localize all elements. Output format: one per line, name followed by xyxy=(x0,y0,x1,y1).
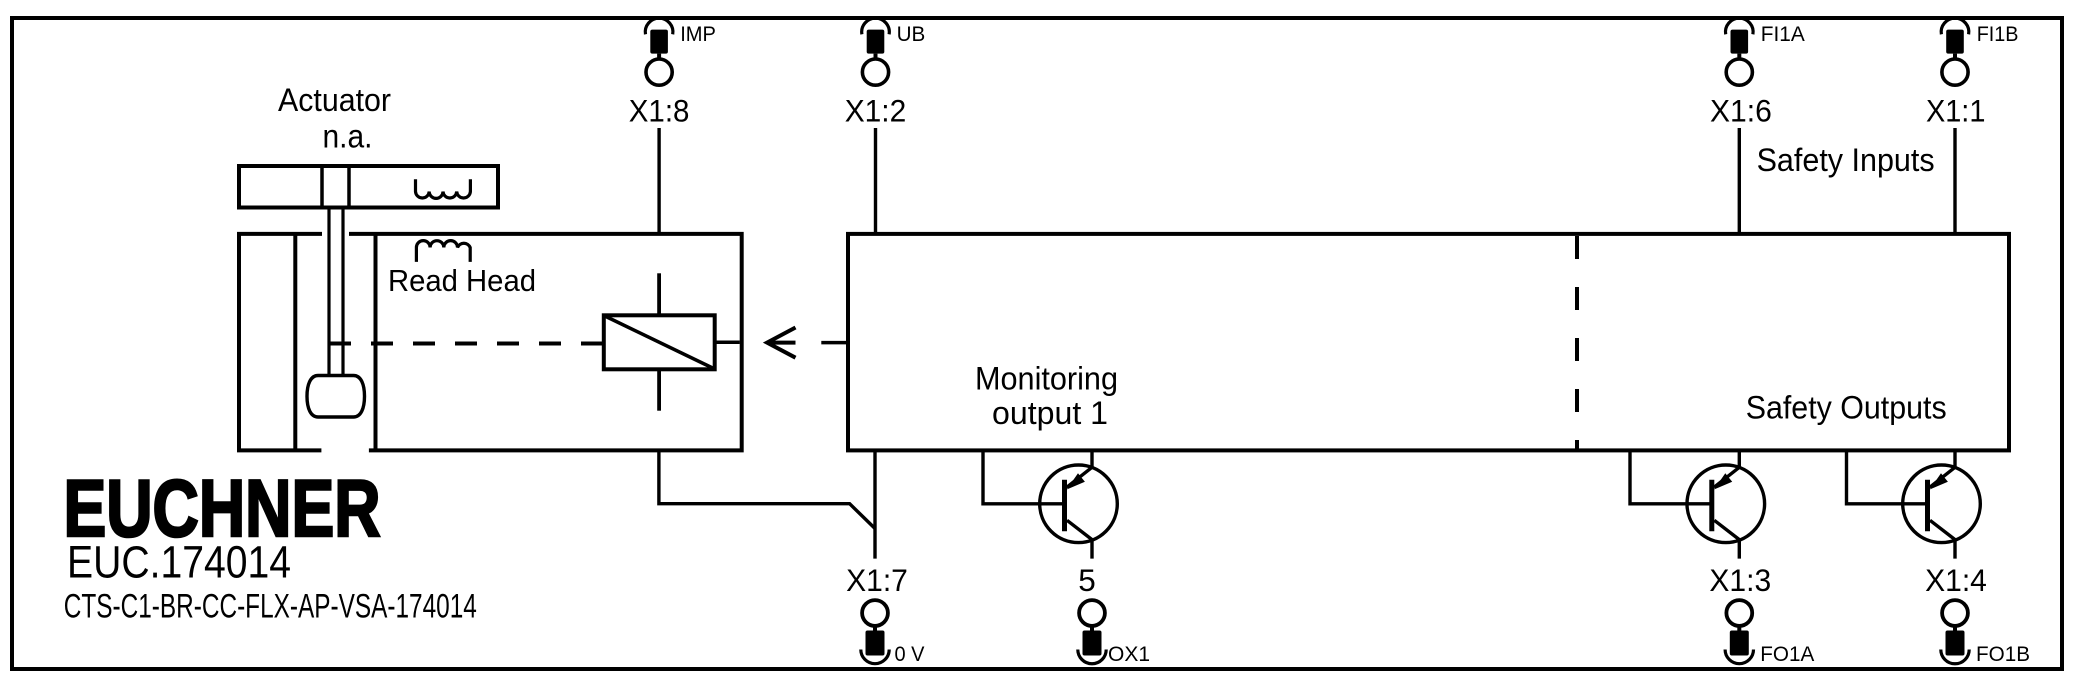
svg-text:FI1A: FI1A xyxy=(1761,22,1806,46)
svg-text:X1:1: X1:1 xyxy=(1926,92,1986,128)
terminal X1:3 pin stub xyxy=(1737,627,1741,633)
terminal X1:2 plug arc xyxy=(862,18,890,34)
terminal X1:6 circle xyxy=(1726,59,1752,85)
transistor Q3 base wire xyxy=(1847,450,1926,503)
terminal X1:3 socket arc xyxy=(1725,650,1753,664)
terminal X1:2 circle xyxy=(862,59,888,85)
svg-text:UB: UB xyxy=(897,22,926,46)
wire arrow from control box xyxy=(821,341,848,345)
actuator bar xyxy=(239,166,498,208)
wire X1:6 xyxy=(1738,128,1741,234)
dashed coupling link xyxy=(329,342,604,346)
relay K1 box xyxy=(604,315,715,369)
wire X1:1 xyxy=(1953,128,1956,234)
relay K1 top stub xyxy=(657,273,661,315)
terminal X1:6 pin xyxy=(1731,30,1749,54)
control box xyxy=(848,234,2009,451)
svg-text:OX1: OX1 xyxy=(1108,642,1150,666)
svg-text:CTS-C1-BR-CC-FLX-AP-VSA-174014: CTS-C1-BR-CC-FLX-AP-VSA-174014 xyxy=(64,588,477,626)
read head coil L2 xyxy=(416,241,470,262)
relay K1 bottom stub xyxy=(657,369,661,410)
svg-text:EUC.174014: EUC.174014 xyxy=(67,536,291,587)
transistor Q1 xyxy=(1040,450,1118,558)
svg-text:Monitoring: Monitoring xyxy=(975,361,1118,397)
read head inner wall xyxy=(374,234,378,451)
terminal X1:3 pin xyxy=(1730,631,1749,656)
svg-text:FI1B: FI1B xyxy=(1977,22,2019,46)
actuator bar divider left xyxy=(320,166,324,208)
terminal X1:2 pin stub xyxy=(874,54,878,60)
terminal X1:3 circle xyxy=(1726,600,1752,626)
terminal X1:4 socket arc xyxy=(1941,650,1969,664)
terminal OX1 socket arc xyxy=(1078,650,1106,664)
wire relay to wall xyxy=(715,341,740,345)
actuator bar divider right xyxy=(347,166,351,208)
terminal X1:8 plug arc xyxy=(645,18,673,34)
terminal X1:4 pin xyxy=(1946,631,1965,656)
terminal X1:1 plug arc xyxy=(1941,18,1969,34)
transistor Q3 xyxy=(1903,450,1981,558)
wire X1:7 vertical xyxy=(873,450,876,558)
terminal OX1 circle xyxy=(1079,600,1105,626)
terminal X1:1 circle xyxy=(1942,59,1968,85)
svg-text:X1:4: X1:4 xyxy=(1925,562,1987,598)
actuator stem xyxy=(327,208,330,378)
terminal X1:8 pin xyxy=(650,30,668,54)
terminal X1:8 pin stub xyxy=(657,54,661,60)
terminal X1:1 pin xyxy=(1946,30,1964,54)
terminal X1:2 pin xyxy=(867,30,885,54)
terminal X1:1 pin stub xyxy=(1953,54,1957,60)
svg-text:IMP: IMP xyxy=(680,22,716,46)
svg-text:FO1A: FO1A xyxy=(1760,642,1815,666)
wire X1:2 xyxy=(874,128,877,234)
terminal X1:6 pin stub xyxy=(1737,54,1741,60)
terminal X1:7 circle xyxy=(862,600,888,626)
svg-text:0 V: 0 V xyxy=(895,642,926,666)
terminal X1:6 plug arc xyxy=(1725,18,1753,34)
svg-text:Safety Outputs: Safety Outputs xyxy=(1746,389,1947,425)
svg-text:X1:2: X1:2 xyxy=(845,92,907,128)
svg-text:X1:7: X1:7 xyxy=(846,562,908,598)
terminal X1:7 pin xyxy=(866,631,885,656)
svg-text:output 1: output 1 xyxy=(992,395,1108,431)
read head box xyxy=(239,234,742,451)
terminal X1:7 socket arc xyxy=(861,650,889,664)
read head compartment line xyxy=(293,234,297,451)
actuator ball xyxy=(307,376,365,418)
actuator coil L1 xyxy=(416,179,471,198)
relay K1 diagonal xyxy=(604,316,715,370)
wire relay output bend xyxy=(659,450,875,528)
svg-text:Read Head: Read Head xyxy=(388,263,536,298)
terminal X1:8 circle xyxy=(646,59,672,85)
terminal X1:4 circle xyxy=(1942,600,1968,626)
terminal X1:4 pin stub xyxy=(1953,627,1957,633)
transistor Q2 xyxy=(1687,450,1765,558)
svg-text:Safety Inputs: Safety Inputs xyxy=(1757,142,1935,178)
terminal OX1 pin xyxy=(1083,631,1102,656)
svg-text:5: 5 xyxy=(1078,562,1096,598)
svg-text:X1:3: X1:3 xyxy=(1709,562,1771,598)
svg-text:Actuator: Actuator xyxy=(278,82,391,118)
svg-text:X1:8: X1:8 xyxy=(629,92,690,128)
transistor Q1 base wire xyxy=(983,450,1063,503)
svg-text:X1:6: X1:6 xyxy=(1710,92,1772,128)
transistor Q2 base wire xyxy=(1630,450,1710,503)
wire X1:8 xyxy=(657,128,660,234)
svg-text:n.a.: n.a. xyxy=(323,118,373,155)
arrow signal xyxy=(767,328,795,358)
terminal OX1 pin stub xyxy=(1090,627,1094,633)
dashed divider xyxy=(1575,236,1579,450)
svg-text:FO1B: FO1B xyxy=(1976,642,2030,666)
terminal X1:7 pin stub xyxy=(873,627,877,633)
